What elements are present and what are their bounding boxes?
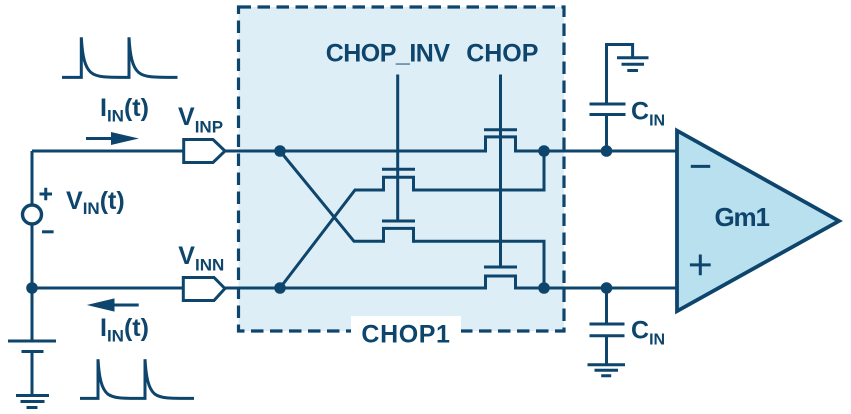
wire M2 right terminal to top node [414,151,545,190]
svg-text:CIN: CIN [631,98,665,130]
wire bottom input VINN net [32,287,677,290]
capacitor CIN bottom plates [590,324,625,336]
junction node bottom right [538,282,550,294]
junction node CIN top [601,145,613,157]
arrow current direction bottom [87,298,139,311]
net CHOP_INV gate line [396,75,399,222]
waveform current pulses top [62,37,178,77]
pin plus input [690,255,711,276]
svg-text:VINN: VINN [178,242,224,275]
pin minus input [691,165,710,168]
wire M2 left terminal to VINN node [280,190,384,288]
wire CIN bottom to node [605,288,608,324]
wire CIN top to node [605,115,608,152]
svg-text:CHOP_INV: CHOP_INV [326,39,451,67]
battery B1 short plate [22,350,44,353]
chopper block CHOP1 dashed box [239,7,565,331]
svg-text:VINP: VINP [178,103,223,137]
wire M3 left terminal to VINP node [280,151,384,241]
net CHOP gate line [499,75,502,268]
wire left source branch upper [31,151,34,205]
transistor M4 channel [486,276,516,290]
op-amp Gm1 triangle [677,131,839,312]
svg-text:CIN: CIN [631,317,665,349]
transistor M4 bottom right gate plate [484,266,517,269]
arrow current direction top [86,132,139,145]
junction node bottom left [274,282,286,294]
capacitor CIN top plates [590,104,626,115]
ground bottom right [588,365,626,376]
junction node top right [538,145,550,157]
wire M3 right terminal to bottom node [414,241,545,288]
wire CIN top to ground [607,45,633,105]
junction node CIN bottom [601,282,613,294]
ground bottom left [16,396,49,408]
junction node top left [274,145,286,157]
wire top input VINP net [32,150,677,153]
port tag VINN [183,278,225,301]
svg-text:VIN(t): VIN(t) [66,187,125,218]
transistor M2 channel [384,177,414,191]
battery B1 long plate [8,340,56,343]
transistor M1 channel [486,137,516,153]
voltage source VIN(t) circle [23,205,42,224]
wire CIN bottom to ground [605,336,608,365]
label CHOP1 [351,316,461,349]
junction node source/battery [26,282,38,294]
wire left source branch lower [31,224,34,341]
transistor M3 channel [384,228,414,242]
svg-text:CHOP: CHOP [466,39,538,67]
ground top right [617,58,649,71]
waveform current pulses bottom [80,359,194,398]
transistor M1 top right gate plate [484,128,517,131]
transistor M2 middle upper gate plate [382,168,415,171]
svg-text:CHOP1: CHOP1 [361,321,450,349]
label + of source [40,188,53,201]
svg-text:IIN(t): IIN(t) [100,94,149,126]
wire battery to ground [31,352,34,396]
label - of source [42,230,54,233]
port tag VINP [184,140,225,163]
svg-text:Gm1: Gm1 [715,202,770,232]
transistor M3 middle lower gate plate [382,220,415,223]
svg-text:IIN(t): IIN(t) [100,314,149,346]
